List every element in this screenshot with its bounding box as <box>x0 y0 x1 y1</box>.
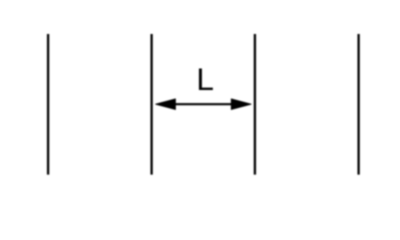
vertical line 2 (left plate of gap L) <box>150 34 152 175</box>
dimension arrow left head <box>156 99 176 110</box>
vertical line 4 (rightmost plate) <box>357 34 359 175</box>
svg-text:L: L <box>196 61 214 97</box>
dimension arrow shaft <box>172 103 234 105</box>
vertical line 3 (right plate of gap L) <box>254 34 256 175</box>
vertical line 1 (leftmost plate) <box>47 34 49 175</box>
dimension arrow right head <box>231 99 251 110</box>
